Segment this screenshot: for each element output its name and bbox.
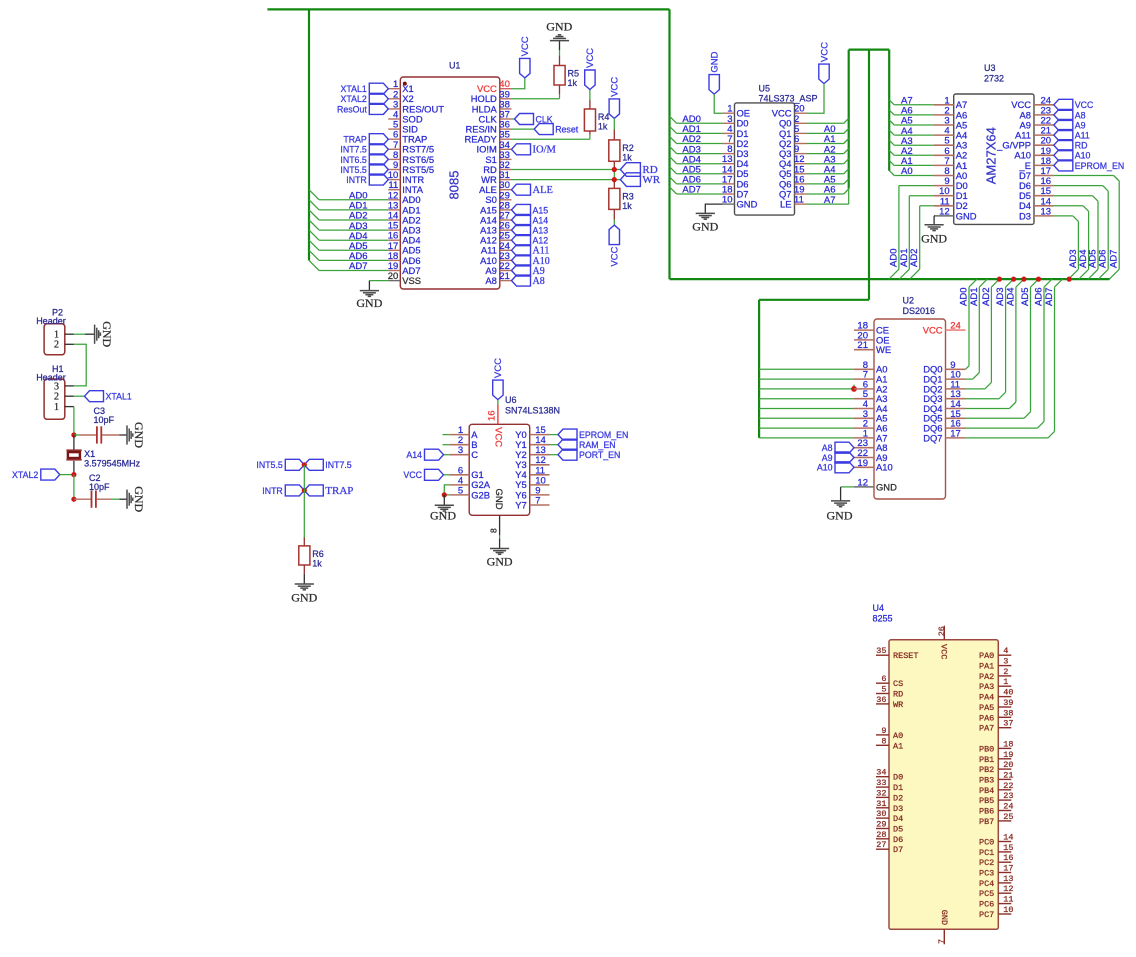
wire AD0 (U5 side)	[677, 122, 723, 124]
wire A0 (U2 side)	[759, 368, 854, 370]
svg-text:GND: GND	[132, 486, 146, 512]
ground GND above R5	[559, 85, 561, 94]
svg-text:33: 33	[876, 778, 886, 788]
svg-text:PB3: PB3	[979, 775, 994, 785]
U1 pin 26 A13	[500, 229, 512, 231]
svg-text:R6: R6	[312, 549, 324, 559]
U1 pin 8 RST6/5	[388, 158, 400, 160]
chip U1 8085 body	[400, 77, 500, 289]
svg-text:7: 7	[535, 496, 540, 507]
svg-text:GND: GND	[546, 20, 572, 34]
U3 pin 9 D0	[934, 185, 954, 187]
global label A12	[512, 235, 531, 246]
svg-text:A8: A8	[533, 276, 545, 287]
wire RD (U1.32) to pullups	[512, 169, 621, 171]
P2 pin 1	[65, 333, 74, 335]
svg-text:1k: 1k	[312, 558, 322, 568]
svg-text:23: 23	[1003, 791, 1013, 801]
U6 pin16 VCC top	[497, 404, 499, 424]
svg-text:LE: LE	[780, 199, 791, 210]
svg-text:AD1: AD1	[899, 249, 910, 267]
U6 pin 5 G2B	[449, 494, 469, 496]
U1 pin 21 A8	[500, 280, 512, 282]
svg-text:A9: A9	[822, 453, 833, 463]
svg-text:AD6: AD6	[1098, 250, 1109, 268]
svg-text:27: 27	[876, 840, 886, 850]
wire crystal top segment	[73, 435, 75, 450]
svg-text:PA2: PA2	[979, 672, 994, 682]
U6 pin 3 C	[449, 454, 469, 456]
U1 pin 30 ALE	[500, 189, 512, 191]
U2 pin 7 A1	[854, 378, 874, 380]
svg-text:ALE: ALE	[533, 185, 553, 196]
svg-text:INTR: INTR	[262, 486, 283, 496]
svg-text:GND: GND	[493, 489, 504, 510]
wire A6 (U3 side)	[889, 110, 894, 115]
svg-text:GND: GND	[356, 296, 382, 310]
U4 pin 28 D6	[876, 838, 889, 840]
wire: thick A-bus vertical x=848.7 (from U5 outputs)	[848, 50, 850, 189]
global label TRAP (strap)	[304, 485, 323, 496]
svg-text:2: 2	[1003, 667, 1008, 677]
svg-text:PB1: PB1	[979, 755, 994, 765]
U1 pin 25 A12	[500, 239, 512, 241]
ground GND (U2)	[831, 500, 850, 502]
U5 pin 1 OE	[723, 112, 735, 114]
wire AD2 (U5 side)	[677, 143, 723, 145]
U5 pin 6 Q2	[795, 143, 807, 145]
svg-text:24: 24	[1003, 802, 1013, 812]
svg-text:GND: GND	[876, 481, 897, 492]
svg-text:20: 20	[1003, 760, 1013, 770]
wire AD1 (U5 side)	[677, 132, 723, 134]
svg-text:A1: A1	[893, 741, 903, 751]
svg-text:3: 3	[458, 445, 463, 456]
wire Q1 out of U5	[807, 132, 844, 134]
power symbol GND (U5 OE)	[709, 75, 719, 95]
svg-text:8255: 8255	[873, 614, 893, 624]
svg-text:28: 28	[876, 830, 886, 840]
U5 pin 5 Q1	[795, 132, 807, 134]
U2 pin 19 A10	[854, 466, 874, 468]
U5 pin 8 D3	[723, 153, 735, 155]
ground GND (U6 G2)	[435, 504, 454, 506]
U5 pin 11 LE	[795, 203, 807, 205]
U2 pin 4 A4	[854, 408, 874, 410]
svg-text:7: 7	[937, 939, 947, 944]
U6 pin 12 Y3	[530, 464, 550, 466]
label Reset on U1 pin 36	[512, 128, 535, 130]
U2 pin 21 WE	[854, 349, 874, 351]
wire Q0 out of U5	[807, 122, 844, 124]
label WR	[620, 173, 640, 187]
connector H1 Header	[44, 379, 65, 419]
svg-text:A14: A14	[406, 450, 422, 460]
U1 pin 38 HLDA	[500, 108, 512, 110]
U3 pin 8 A0	[934, 175, 954, 177]
svg-text:14: 14	[1003, 833, 1013, 843]
wire P2.2 to H1.3	[74, 344, 86, 386]
global label INTR (strap)	[285, 485, 304, 496]
chip U4 8255 body	[889, 640, 998, 930]
U4 pin 26 VCC top	[943, 626, 945, 640]
svg-text:18: 18	[1003, 739, 1013, 749]
global label A9 (U3)	[1054, 120, 1073, 131]
wire AD7 to U2 DQ7	[966, 437, 1049, 439]
svg-text:10: 10	[722, 195, 733, 206]
wire AD1 to U3 D1	[909, 195, 934, 197]
wire AD3 (U5 side)	[677, 153, 723, 155]
svg-text:PC1: PC1	[979, 848, 994, 858]
ground GND (U6 pin8)	[490, 548, 509, 550]
svg-text:PA0: PA0	[979, 651, 994, 661]
global label A8	[512, 275, 531, 286]
U4 pin 16 PC2	[998, 861, 1011, 863]
U1 pin 7 RST7/5	[388, 148, 400, 150]
svg-text:PA4: PA4	[979, 693, 994, 703]
svg-text:D3: D3	[893, 804, 903, 814]
svg-text:VCC: VCC	[493, 358, 504, 378]
ground GND (P2.1, rotated)	[94, 325, 96, 344]
U1 pin 22 A9	[500, 270, 512, 272]
svg-text:VCC: VCC	[819, 42, 830, 62]
U4 pin 38 PA6	[998, 716, 1011, 718]
svg-text:VCC: VCC	[520, 36, 531, 56]
U2 pin 3 A5	[854, 417, 874, 419]
U1 pin 10 INTR	[388, 179, 400, 181]
svg-text:GND: GND	[921, 232, 947, 246]
svg-text:R5: R5	[568, 69, 580, 79]
svg-text:TRAP: TRAP	[325, 485, 353, 497]
U4 pin 34 D0	[876, 776, 889, 778]
U4 pin 24 PB6	[998, 810, 1011, 812]
svg-text:AD7: AD7	[1109, 250, 1120, 268]
U4 pin 17 PC3	[998, 872, 1011, 874]
U4 pin 25 PB7	[998, 820, 1011, 822]
svg-text:A15: A15	[533, 205, 549, 215]
svg-text:Header: Header	[36, 316, 66, 326]
svg-text:VSS: VSS	[402, 275, 421, 286]
wire AD7 (U5 side)	[677, 193, 723, 195]
U3 pin 17 D7	[1034, 175, 1054, 177]
connector P2 Header	[44, 324, 65, 355]
svg-text:AD7: AD7	[349, 261, 367, 272]
wire AD1 (U1 side)	[319, 209, 388, 211]
U3 pin 7 A1	[934, 164, 954, 166]
svg-text:GND: GND	[956, 210, 977, 221]
svg-text:PORT_EN: PORT_EN	[579, 450, 620, 460]
wire H1.1 down to crystal	[73, 407, 75, 435]
U1 pin 31 WR	[500, 179, 512, 181]
svg-text:PC4: PC4	[979, 879, 994, 889]
U1 pin 14 AD2	[388, 219, 400, 221]
svg-text:19: 19	[857, 458, 868, 469]
U3 pin 14 D4	[1034, 205, 1054, 207]
U1 pin 23 A10	[500, 259, 512, 261]
svg-text:AD7: AD7	[1044, 288, 1055, 306]
svg-text:TRAP: TRAP	[343, 135, 367, 145]
U4 pin 13 PC4	[998, 882, 1011, 884]
U6 pin 9 Y6	[530, 494, 550, 496]
U6 pin 2 B	[449, 444, 469, 446]
wire: thick A-bus vertical x=757.5 feeding U2 address pins	[758, 300, 760, 438]
U5 pin 16 Q6	[795, 183, 807, 185]
global label INTR	[369, 174, 388, 185]
wire: thick A-bus vertical x=869 down to U2	[868, 50, 870, 300]
U1 pin 18 AD6	[388, 259, 400, 261]
svg-text:EPROM_EN: EPROM_EN	[579, 430, 628, 440]
wire AD4 (U1 side)	[319, 239, 388, 241]
U3 pin 1 A7	[934, 104, 954, 106]
wire A2 (U2 side)	[759, 388, 854, 390]
U1 pin 11 INTA	[388, 189, 400, 191]
svg-text:30: 30	[876, 809, 886, 819]
svg-text:D0: D0	[893, 773, 903, 783]
wire Y2	[550, 454, 559, 456]
wire: thick AD bus, vertical at x=669.5	[668, 9, 670, 279]
U5 pin 13 D4	[723, 163, 735, 165]
chip U2 DS2016 body	[874, 319, 946, 499]
svg-text:39: 39	[1003, 698, 1013, 708]
svg-text:A12: A12	[533, 236, 549, 246]
svg-text:A9: A9	[1075, 120, 1086, 130]
U4 pin 40 PA4	[998, 696, 1011, 698]
svg-text:29: 29	[876, 820, 886, 830]
U4 pin 14 PC0	[998, 841, 1011, 843]
U5 pin 10 GND	[723, 203, 735, 205]
wire G2A/G2B to ground	[444, 485, 449, 495]
svg-text:12: 12	[857, 477, 868, 488]
wire AD5 (U1 side)	[319, 249, 388, 251]
wire A4 (U2 side)	[759, 408, 854, 410]
svg-text:XTAL2: XTAL2	[12, 470, 38, 480]
global label TRAP	[369, 134, 388, 145]
svg-text:X1: X1	[84, 449, 95, 459]
svg-text:3.579545MHz: 3.579545MHz	[84, 459, 141, 469]
svg-text:PB7: PB7	[979, 817, 994, 827]
svg-text:1k: 1k	[622, 201, 632, 211]
svg-text:17: 17	[1003, 864, 1013, 874]
power symbol VCC (U5 pin20)	[819, 64, 829, 84]
wire Y1	[550, 444, 559, 446]
svg-text:DS2016: DS2016	[903, 306, 936, 316]
wire A2 (U3 side)	[889, 150, 894, 155]
svg-text:VCC: VCC	[610, 77, 621, 97]
svg-text:Y7: Y7	[515, 499, 526, 510]
resistor R6 1k	[299, 546, 310, 565]
svg-text:21: 21	[499, 271, 510, 282]
U3 pin 23 A8	[1034, 114, 1054, 116]
U4 pin 11 PC6	[998, 903, 1011, 905]
svg-text:13: 13	[1041, 206, 1052, 217]
svg-text:A10: A10	[876, 462, 893, 473]
svg-text:1k: 1k	[622, 152, 632, 162]
U1 pin 5 SID	[388, 128, 400, 130]
power symbol VCC (below R3)	[609, 225, 619, 245]
wire A5 (U2 side)	[759, 417, 854, 419]
U1 pin 37 CLK	[500, 118, 512, 120]
wire Q6 out of U5	[807, 183, 844, 185]
U3 pin 24 VCC	[1034, 104, 1054, 106]
svg-text:10: 10	[1003, 905, 1013, 915]
svg-text:A0: A0	[893, 731, 903, 741]
U2 pin 20 OE	[854, 339, 874, 341]
global label RD (U3)	[1054, 140, 1073, 151]
U2 pin 12 GND	[854, 486, 874, 488]
label ALE on U1 pin 30	[512, 184, 531, 195]
U2 pin 10 DQ1	[946, 378, 966, 380]
wire VCC to U1 pin 40	[512, 78, 525, 89]
U4 pin 32 D2	[876, 796, 889, 798]
svg-text:VCC: VCC	[610, 246, 621, 266]
junction on U2 A2 wire	[853, 385, 855, 389]
wire READY (U1.35) to R4	[512, 138, 590, 140]
global label XTAL2	[41, 469, 60, 480]
P2 pin 2	[65, 343, 74, 345]
svg-text:VCC: VCC	[938, 644, 948, 659]
U4 pin 33 D1	[876, 786, 889, 788]
junction crystal bottom	[71, 472, 76, 477]
H1 pin 1	[65, 406, 74, 408]
U2 pin 9 DQ0	[946, 368, 966, 370]
global label RAM_EN	[558, 439, 577, 450]
U2 pin 11 DQ2	[946, 388, 966, 390]
global label A11 (U3)	[1054, 130, 1073, 141]
U2 pin 18 CE	[854, 329, 874, 331]
U4 pin 12 PC5	[998, 892, 1011, 894]
wire AD3 (U1 side)	[319, 229, 388, 231]
U2 pin 24 VCC	[946, 329, 966, 331]
label CLK on U1 pin 37	[512, 118, 515, 120]
junction crystal top	[71, 432, 76, 437]
svg-text:WE: WE	[876, 344, 891, 355]
U6 pin 11 Y4	[530, 474, 550, 476]
svg-text:XTAL1: XTAL1	[341, 84, 367, 94]
svg-text:VCC: VCC	[1075, 100, 1094, 110]
svg-text:INT5.5: INT5.5	[340, 165, 367, 175]
wire A7 (U2 side)	[759, 437, 854, 439]
U4 pin 29 D5	[876, 828, 889, 830]
U6 pin 1 A	[449, 434, 469, 436]
wire: thick AD bus, left vertical at x=309	[308, 9, 310, 260]
svg-text:G2B: G2B	[471, 489, 490, 500]
wire AD5 to U3 D5	[1054, 195, 1093, 197]
svg-text:D6: D6	[893, 835, 903, 845]
svg-text:AD0: AD0	[888, 249, 899, 267]
U1 pin 4 SOD	[388, 118, 400, 120]
svg-text:AD1: AD1	[969, 288, 980, 306]
resistor R2 1k	[613, 118, 615, 130]
svg-text:Header: Header	[36, 372, 66, 382]
U4 pin 4 PA0	[998, 654, 1011, 656]
global label A15	[512, 204, 531, 215]
global label XTAL2	[369, 93, 388, 104]
power symbol VCC (U6)	[493, 380, 503, 400]
wire WR (U1.31) to pullups	[512, 179, 621, 181]
global label VCC (U3)	[1054, 99, 1073, 110]
svg-text:VCC: VCC	[403, 470, 422, 480]
svg-text:24: 24	[950, 321, 961, 332]
wire H1.2 to XTAL1 label	[74, 395, 85, 397]
wire: thick AD bus, bottom horizontal y=279	[670, 278, 1110, 280]
wire AD6 (U5 side)	[677, 183, 723, 185]
ground GND (C3, rotated)	[126, 425, 128, 444]
svg-text:10pF: 10pF	[94, 415, 115, 425]
U1 pin 3 RES/OUT	[388, 108, 400, 110]
U2 pin 22 A9	[854, 457, 874, 459]
svg-text:ResOut: ResOut	[337, 104, 367, 114]
label IO/M on U1 pin 34	[512, 144, 531, 155]
U5 pin 18 D7	[723, 193, 735, 195]
wire AD7 to U3 D7	[1054, 175, 1114, 177]
U3 pin 2 A6	[934, 114, 954, 116]
global label XTAL1 (H1)	[85, 391, 104, 402]
U5 pin 3 D0	[723, 122, 735, 124]
svg-text:SN74LS138N: SN74LS138N	[505, 406, 560, 416]
global label A11	[512, 245, 531, 256]
svg-text:PC0: PC0	[979, 838, 994, 848]
power symbol VCC (R2)	[609, 99, 619, 119]
U4 pin 22 PB4	[998, 789, 1011, 791]
svg-text:GND: GND	[291, 591, 317, 605]
U3 pin 11 D2	[934, 205, 954, 207]
svg-text:37: 37	[1003, 719, 1013, 729]
U1 pin 20 VSS	[388, 280, 400, 282]
U3 pin 22 A9	[1034, 124, 1054, 126]
wire A4 (U3 side)	[889, 130, 894, 135]
svg-text:AD2: AD2	[909, 249, 920, 267]
svg-text:PB0: PB0	[979, 744, 994, 754]
svg-text:2732: 2732	[984, 74, 1004, 84]
svg-text:PB6: PB6	[979, 807, 994, 817]
svg-text:16: 16	[487, 410, 498, 421]
wire A6 (U2 side)	[759, 427, 854, 429]
U5 pin 9 Q3	[795, 153, 807, 155]
svg-text:EPROM_EN: EPROM_EN	[1075, 161, 1124, 171]
wire A1 (U2 side)	[759, 378, 854, 380]
wire crystal bottom segment	[73, 461, 75, 475]
wire AD2 to U3 D2	[920, 205, 934, 207]
wire between RD and WR junctions	[613, 170, 615, 180]
global label EPROM_EN	[558, 429, 577, 440]
wire Q7 out of U5	[807, 193, 844, 195]
wire AD7 (U1 side)	[319, 270, 388, 272]
svg-text:GND: GND	[487, 555, 513, 569]
svg-text:6: 6	[881, 674, 886, 684]
svg-text:GND: GND	[710, 51, 721, 72]
svg-text:PB4: PB4	[979, 786, 994, 796]
U2 pin 14 DQ4	[946, 408, 966, 410]
U3 pin 5 A3	[934, 144, 954, 146]
H1 pin 3	[65, 385, 74, 387]
svg-text:U6: U6	[505, 395, 517, 405]
svg-text:Reset: Reset	[555, 125, 579, 135]
U1 pin 32 RD	[500, 169, 512, 171]
wire: thick AD bus, top horizontal	[267, 8, 669, 10]
svg-text:13: 13	[1003, 874, 1013, 884]
wire Q4 out of U5	[807, 163, 844, 165]
U4 pin 8 A1	[876, 744, 889, 746]
junction INT strap 2	[302, 488, 307, 493]
U2 pin 16 DQ6	[946, 427, 966, 429]
ground GND (C2, rotated)	[126, 490, 128, 509]
svg-text:A10: A10	[817, 463, 833, 473]
wire INT straps down to R6	[303, 465, 305, 538]
svg-text:12: 12	[1003, 884, 1013, 894]
svg-text:R4: R4	[598, 112, 610, 122]
svg-text:GND: GND	[430, 509, 456, 523]
svg-text:PC3: PC3	[979, 869, 994, 879]
